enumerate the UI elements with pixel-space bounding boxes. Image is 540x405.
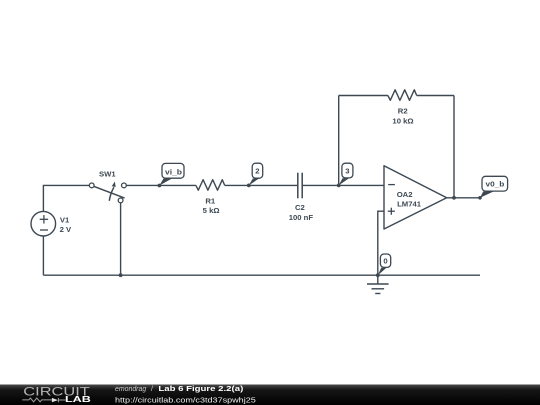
svg-text:R1: R1: [205, 197, 216, 206]
wire feedback vertical from node 3: [338, 96, 340, 186]
switch pin 2 throw terminal: [122, 183, 127, 188]
svg-text:vi_b: vi_b: [165, 167, 182, 176]
footer bar: [0, 385, 540, 405]
resistor R2: [388, 90, 417, 101]
wire feedback top left segment: [339, 95, 388, 97]
op-amp triangle body: [384, 166, 447, 229]
svg-text:3: 3: [345, 166, 349, 175]
svg-text:C2: C2: [295, 203, 305, 212]
node vi_b flag: [158, 163, 185, 187]
voltage source V1 minus marker: [40, 229, 48, 231]
wire C2 to op-amp inverting input: [302, 184, 384, 186]
svg-text:Lab 6 Figure 2.2(a): Lab 6 Figure 2.2(a): [158, 384, 243, 393]
svg-text:R2: R2: [398, 107, 408, 116]
junction dot ground node: [376, 273, 380, 277]
resistor R1: [196, 180, 225, 191]
node 2 flag: [247, 163, 263, 187]
svg-text:LM741: LM741: [397, 200, 422, 209]
svg-text:SW1: SW1: [99, 170, 116, 179]
op-amp OA2: [384, 166, 447, 229]
svg-text:V1: V1: [60, 215, 70, 224]
wire feedback top right segment: [417, 95, 454, 97]
svg-text:5 kΩ: 5 kΩ: [203, 206, 220, 215]
svg-text:0: 0: [383, 257, 387, 266]
capacitor C2: [298, 173, 302, 199]
wire bottom rail: [43, 274, 480, 276]
wire op-amp output: [447, 197, 480, 199]
voltage source V1 body: [31, 211, 56, 236]
switch pin 1 common terminal: [89, 183, 94, 188]
node 3 flag: [337, 163, 353, 187]
op-amp non-inverting input marker: [388, 208, 395, 215]
svg-text:LAB: LAB: [65, 395, 91, 404]
node v0_b flag: [478, 176, 507, 199]
switch blade: [94, 186, 125, 198]
node 0 flag: [378, 254, 391, 275]
wire switch throw down to bottom rail: [120, 203, 122, 275]
switch actuator arrow shaft: [109, 187, 114, 201]
switch SW1: [89, 170, 126, 203]
svg-text:v0_b: v0_b: [486, 180, 505, 189]
wire R1 to C2: [225, 184, 298, 186]
voltage source V1 plus marker: [40, 215, 48, 223]
svg-text:OA2: OA2: [397, 190, 413, 199]
wire V1 bottom: [42, 236, 44, 275]
junction dot bottom rail / switch: [119, 273, 123, 277]
svg-text:2: 2: [255, 167, 259, 176]
svg-text:2 V: 2 V: [60, 225, 72, 234]
switch actuator arrowhead: [112, 182, 116, 188]
junction dot op-amp output: [452, 196, 456, 200]
wire top-left from V1 to switch: [43, 185, 89, 211]
ground: [367, 275, 389, 293]
wire switch right to R1: [126, 184, 196, 186]
wire right vertical to output: [453, 96, 455, 198]
svg-text:emondrag: emondrag: [115, 384, 147, 393]
wire op-amp non-inverting input to ground rail: [378, 211, 384, 275]
svg-text:10 kΩ: 10 kΩ: [392, 117, 413, 126]
svg-text:http://circuitlab.com/c3td37sp: http://circuitlab.com/c3td37spwhj25: [115, 395, 256, 404]
svg-text:100 nF: 100 nF: [289, 213, 314, 222]
footer logo wire and diode: [22, 398, 65, 402]
switch pin 3 throw terminal: [118, 198, 123, 203]
op-amp inverting input marker: [388, 184, 395, 186]
